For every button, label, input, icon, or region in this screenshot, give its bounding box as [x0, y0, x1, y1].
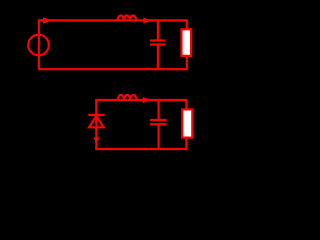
- inductor L1: [118, 16, 137, 21]
- capacitor C2 bottom plate: [150, 123, 167, 125]
- resistor R2 bottom lead: [185, 138, 187, 150]
- resistor R1 bottom lead: [186, 55, 188, 69]
- current arrow (after L1): [143, 17, 150, 23]
- capacitor C1 bottom lead: [157, 45, 159, 70]
- resistor R2 (load): [182, 109, 192, 137]
- capacitor C2 bottom lead: [158, 124, 160, 149]
- resistor R1 top lead: [186, 19, 188, 30]
- capacitor C1 bottom plate: [150, 43, 166, 45]
- current source I1: [28, 35, 49, 56]
- diode D1 triangle: [89, 116, 104, 127]
- current arrow (diode branch, pointing down): [93, 137, 99, 143]
- capacitor C2 top lead: [158, 100, 160, 120]
- current arrow (after L2): [143, 97, 151, 103]
- wire bottom (bottom circuit): [95, 148, 187, 150]
- capacitor C1 top lead: [157, 21, 159, 41]
- inductor L2: [118, 95, 137, 100]
- diode D1 top lead / wire left vertical (bottom circuit): [95, 99, 97, 149]
- capacitor C1 top plate: [150, 39, 166, 41]
- diode D1 cathode bar: [88, 114, 104, 116]
- capacitor C2 top plate: [150, 119, 167, 121]
- wire left vertical (top circuit): [38, 20, 40, 69]
- resistor R2 top lead: [185, 99, 187, 110]
- current arrow (top wire, near source): [43, 17, 52, 24]
- wire bottom (top circuit): [38, 68, 188, 70]
- wire top (top circuit): [38, 19, 188, 21]
- wire top (bottom circuit): [95, 99, 187, 101]
- resistor R1 (load): [182, 29, 192, 56]
